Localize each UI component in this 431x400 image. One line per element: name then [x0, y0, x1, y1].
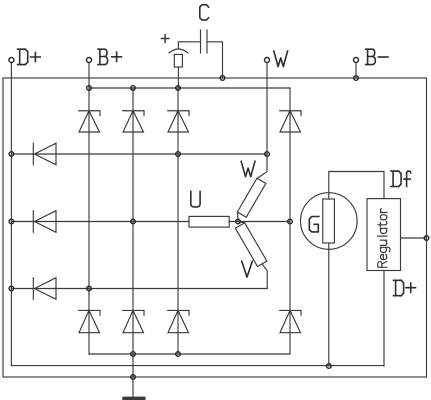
label C: [200, 5, 209, 20]
wire D+ rail: [10, 63, 12, 366]
wire polarized capacitor to bus: [177, 67, 179, 88]
diode top 3: [168, 111, 189, 132]
wire G bottom: [328, 243, 330, 366]
polarized capacitor curved plate: [169, 49, 188, 53]
label D+: [18, 49, 41, 64]
exciter diode row W: [33, 143, 56, 165]
diode bottom 1: [79, 310, 100, 332]
label W winding: [241, 161, 255, 176]
wire capacitor right: [207, 42, 223, 78]
terminal B-: [354, 58, 359, 63]
node capacitor case: [220, 76, 225, 81]
wire V winding bottom: [262, 264, 267, 289]
node negative bus col3: [176, 352, 181, 357]
node negative bus col2: [131, 352, 136, 357]
node row V col1: [87, 286, 92, 291]
node star col4: [288, 219, 293, 224]
node B- case: [354, 76, 359, 81]
node row W col3: [176, 152, 181, 157]
label V: [242, 261, 253, 277]
winding V: [235, 223, 267, 267]
node B+ bus col2: [131, 86, 136, 91]
label + polarity: [161, 35, 168, 42]
ground: [122, 397, 145, 400]
node ground case: [131, 375, 136, 380]
wire B+ drop: [88, 63, 90, 89]
diode bottom 4: [280, 310, 301, 332]
wire W winding bottom: [237, 212, 239, 221]
wire column 2: [132, 88, 134, 354]
regulator box: [367, 199, 401, 271]
capacitor C plates: [201, 30, 208, 53]
wire D+ bottom bus: [11, 365, 384, 367]
wire negative bus: [89, 353, 290, 355]
terminal W: [265, 58, 270, 63]
diode top 1: [79, 111, 100, 132]
node row U col2: [131, 219, 136, 224]
diode bottom 3: [168, 310, 189, 332]
node row V rail: [9, 286, 14, 291]
wire W winding top: [257, 154, 267, 178]
wire V winding top: [238, 222, 245, 223]
winding U: [189, 216, 229, 227]
diode top 2: [123, 111, 144, 132]
label D+ regulator: [394, 280, 416, 295]
node row W rail: [9, 152, 14, 157]
terminal B+: [87, 58, 92, 63]
node B+ bus col1: [87, 86, 92, 91]
wire regulator bottom: [383, 271, 385, 367]
wire ground column: [132, 354, 134, 397]
wire phase row U: [11, 221, 290, 223]
node B+ bus col3: [176, 86, 181, 91]
wire B- drop: [355, 63, 357, 79]
terminal D+: [9, 58, 14, 63]
wire phase row W: [11, 153, 267, 155]
label G: [309, 217, 319, 232]
node star point: [236, 219, 241, 224]
wire W drop: [266, 63, 268, 155]
wire column 1: [88, 88, 90, 354]
label W: [274, 51, 288, 66]
label Regulator: [378, 209, 390, 268]
generator field rect: [323, 199, 335, 243]
label B-: [366, 49, 388, 64]
node regulator case: [424, 236, 429, 241]
polarized capacitor body: [174, 54, 182, 67]
diode top 4: [280, 111, 301, 132]
wire regulator right to case: [401, 237, 427, 239]
node G bottom bus: [327, 364, 332, 369]
wire Df regulator to G: [329, 172, 384, 200]
wire B+ bus: [89, 87, 290, 89]
label B+: [98, 49, 121, 64]
node row W terminal: [265, 152, 270, 157]
wire column 3: [177, 88, 179, 354]
case outer box: [3, 78, 427, 377]
wire phase row V: [11, 288, 267, 290]
wire column 4: [289, 88, 291, 354]
generator G circle: [301, 193, 358, 250]
diode bottom 2: [123, 310, 144, 332]
wire capacitor left: [178, 42, 200, 49]
label U: [191, 191, 200, 207]
exciter diode row V: [33, 278, 56, 300]
winding W: [237, 178, 265, 217]
label Df: [391, 171, 411, 186]
node row U rail: [9, 219, 14, 224]
exciter diode row U: [33, 211, 56, 233]
